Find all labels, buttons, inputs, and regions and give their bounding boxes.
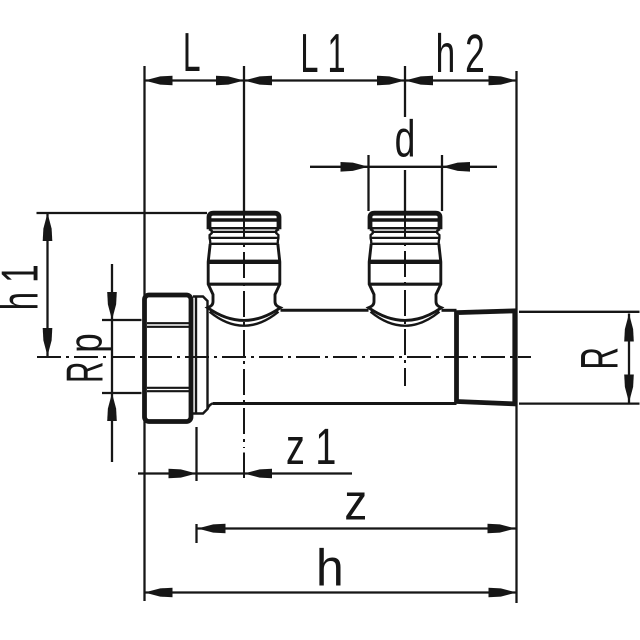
connector U1 body outline [210,243,278,245]
Rp bottom extension line [102,392,142,394]
arrows dimension R [624,314,634,342]
push-in connector U2: top cap [370,213,440,229]
label z [346,493,365,520]
extension line above connector U1 (L/L1 boundary) [243,66,245,213]
dimension line h [145,591,517,593]
connector U1 thick band [208,260,280,264]
dimension line z1 [138,472,352,474]
horizontal centreline (pipe axis) [37,356,531,358]
R top extension line [519,311,640,313]
union nut (hex, side view) [145,295,192,422]
label h [319,548,340,586]
connector U2 boss inner saddle arc [371,312,440,326]
arrows dimension h [145,588,173,598]
d extension line left cap edge [367,155,369,211]
connector U1 boss inner saddle arc [210,312,279,326]
dimension line Rp [111,264,113,462]
arrows dimension d [341,162,369,172]
extension line at nut left face (top chain + h) [143,66,145,601]
h1 extension line at cap top level [37,212,208,214]
R bottom extension line [519,402,640,404]
connector U2 cap bottom line [370,227,440,229]
spigot socket end (thick outline) [457,311,515,404]
label h 1 (rotated) [0,266,38,308]
collar between nut and body [193,297,214,414]
arrows dimension h2 [405,76,433,86]
pipe body top line before socket [442,309,457,312]
extension line at right fitting end [515,71,517,603]
push-in connector U1: top cap [209,213,279,229]
label h 2 [438,33,483,72]
connector U2 vertical centreline [404,212,406,386]
label d [396,119,413,157]
connector U1 cap groove line [209,218,279,222]
connector U1 lower body line [208,283,280,286]
connector U2 cap groove line [370,218,440,222]
Rp top extension line [102,319,142,321]
dimension line L / L1 / h2 [145,79,517,81]
washer line behind nut [195,297,197,414]
dimension line z [197,527,517,529]
arrows dimension L [145,76,173,86]
dimension line R [628,314,630,403]
arrows dimension Rp [107,292,117,320]
label L [186,33,200,71]
dimension line d [310,166,497,168]
label Rp (rotated R with p) [67,363,103,381]
extension line above connector U2, broken around label d [404,66,406,117]
pipe body bottom line [213,402,457,405]
arrows dimension L1 [244,76,272,86]
d extension line right cap edge [441,155,443,211]
connector U1 cap bottom line [209,227,279,229]
nut hex facet lines upper [147,322,189,324]
extension line body face lower segment [195,524,197,543]
connector U2 thick band [369,260,441,264]
arrows dimension z [198,524,226,534]
arrows dimension z1 [169,469,197,479]
label R (rotated) [581,349,617,368]
connector U1 release ring [209,229,279,244]
connector U1 vertical centreline [243,213,245,448]
nut hex facet lines lower [147,387,189,389]
dimension line h1 [46,213,48,356]
label L 1 [303,34,344,72]
connector U2 lower body line [369,283,441,286]
connector U2 body outline [371,243,439,245]
pipe body top line between connectors [281,309,369,312]
label z 1 [288,429,335,464]
extension line body face (z1/z) upper segment [195,427,197,481]
connector U2 release ring [370,229,440,244]
arrows dimension h1 [43,213,53,241]
